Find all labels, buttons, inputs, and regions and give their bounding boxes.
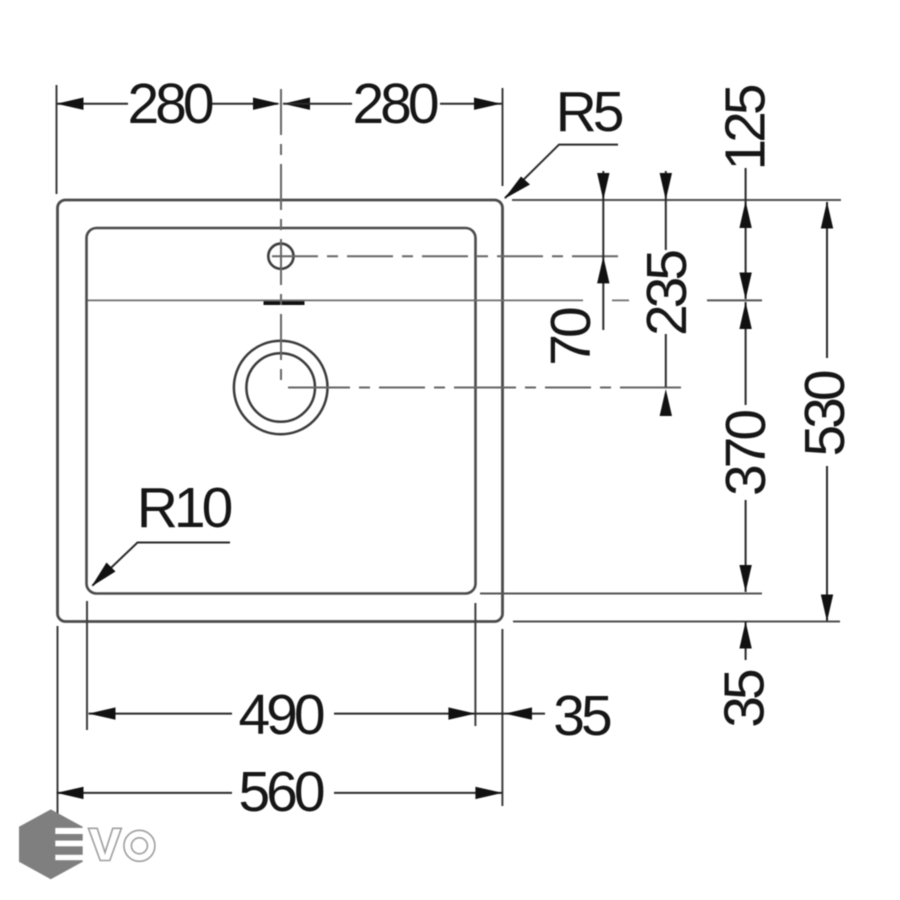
- svg-text:560: 560: [238, 760, 323, 824]
- dimension 235 line: [665, 171, 667, 250]
- R5 leader: [505, 145, 618, 198]
- extension line top-right: [502, 88, 504, 186]
- overflow marker: [264, 301, 305, 305]
- dimension 35 horizontal line: [475, 713, 545, 715]
- R10 leader: [93, 543, 231, 586]
- svg-text:370: 370: [714, 411, 778, 496]
- dimension 490 line: [89, 713, 233, 715]
- centerline vertical: [280, 89, 282, 389]
- dimension 280 left line: [57, 103, 129, 105]
- svg-text:280: 280: [127, 72, 212, 136]
- dimension 560 line: [57, 792, 233, 794]
- svg-text:235: 235: [635, 251, 699, 336]
- dimension 35 vertical line: [745, 622, 747, 661]
- dimension 70 line: [602, 171, 604, 330]
- logo O: [124, 830, 155, 861]
- drain inner circle: [246, 353, 315, 422]
- extension line bottom outer-left: [57, 626, 59, 815]
- dimension 280 mid line: [212, 103, 278, 105]
- logo E white cuts: [55, 828, 86, 834]
- dimension 280 right line: [440, 103, 503, 105]
- svg-text:280: 280: [352, 72, 437, 136]
- svg-text:35: 35: [553, 684, 611, 748]
- logo V: [88, 828, 121, 860]
- drain outer circle: [234, 341, 328, 435]
- logo hexagon: [19, 809, 83, 879]
- svg-text:125: 125: [713, 85, 777, 170]
- dimension 125 line: [745, 168, 747, 299]
- svg-text:R5: R5: [556, 80, 623, 144]
- svg-text:490: 490: [238, 683, 323, 747]
- faucet hole: [268, 244, 293, 269]
- svg-text:35: 35: [713, 670, 777, 728]
- extension line bottom inner-right: [474, 603, 476, 726]
- svg-text:530: 530: [793, 371, 857, 456]
- centerline drain horizontal: [288, 387, 681, 389]
- top edge extension right: [512, 199, 841, 201]
- dimension 530 line: [826, 202, 828, 358]
- bottom edge extension right: [513, 621, 840, 623]
- dimension 370 line: [745, 302, 747, 405]
- svg-text:R10: R10: [137, 476, 232, 540]
- centerline faucet horizontal: [272, 255, 619, 257]
- extension line top-left: [56, 85, 58, 194]
- svg-text:70: 70: [539, 308, 603, 366]
- extension line bottom outer-right: [501, 629, 503, 806]
- extension line bottom inner-left: [86, 601, 88, 730]
- sink outer outline: [58, 200, 503, 622]
- bowl top edge: [88, 299, 584, 301]
- sink inner rim: [87, 228, 476, 594]
- bowl bottom edge extension right: [480, 593, 762, 595]
